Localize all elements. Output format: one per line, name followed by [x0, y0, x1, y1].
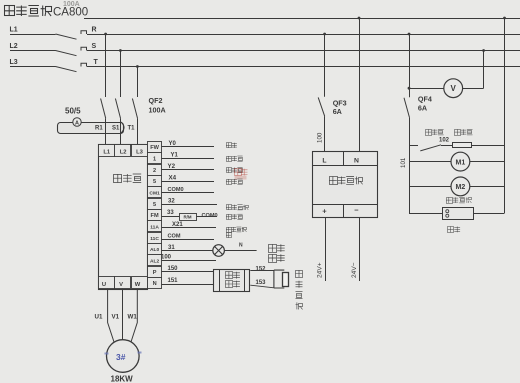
resistor R/M on FM line	[180, 214, 197, 221]
braking unit 制动单元 box	[214, 270, 250, 292]
svg-text:+: +	[322, 207, 327, 216]
svg-text:100A: 100A	[149, 106, 166, 115]
wire 31 from AL0	[162, 250, 213, 252]
junction R-QF4	[408, 33, 411, 36]
label 转速表	[226, 214, 232, 219]
svg-text:QF2: QF2	[149, 96, 163, 105]
svg-text:W1: W1	[128, 314, 138, 321]
wire rung1 mid	[441, 145, 453, 147]
svg-text:L1: L1	[10, 27, 18, 34]
wire Y1 from terminal 1	[162, 158, 215, 160]
switch QF1 pole L3	[56, 67, 77, 72]
label 多段速	[226, 156, 232, 162]
svg-text:L1: L1	[103, 150, 111, 156]
svg-text:Y1: Y1	[171, 153, 179, 159]
svg-text:6A: 6A	[418, 104, 427, 113]
label 照明灯	[455, 129, 461, 135]
wire rung3 right	[470, 186, 505, 188]
svg-text:N: N	[153, 281, 157, 287]
junction N-ladder	[503, 17, 506, 20]
junction T-QF2	[136, 65, 139, 68]
svg-text:V: V	[451, 84, 457, 93]
svg-text:24V+: 24V+	[317, 262, 324, 278]
label 制动电阻 (vertical)	[296, 270, 303, 278]
terminal U	[99, 277, 115, 289]
svg-text:N: N	[354, 158, 359, 165]
wire phase R rail	[87, 34, 520, 36]
wire ladder left rail 101	[409, 117, 411, 213]
terminal L2	[115, 145, 131, 157]
svg-text:U: U	[102, 282, 106, 288]
wire voltmeter left lead	[409, 88, 444, 90]
svg-text:P: P	[153, 270, 157, 276]
svg-text:COM0: COM0	[168, 187, 184, 193]
wire R to QF3	[324, 34, 326, 97]
label 多段速	[226, 179, 232, 185]
svg-text:150: 150	[168, 266, 179, 272]
svg-text:CA800: CA800	[53, 7, 88, 19]
svg-text:32: 32	[168, 199, 175, 205]
wire 24V-	[359, 217, 361, 281]
junction R-QF2	[104, 33, 107, 36]
svg-text:V: V	[119, 282, 123, 288]
terminal L1	[99, 145, 115, 157]
svg-text:18KW: 18KW	[111, 375, 134, 383]
svg-text:X4: X4	[169, 175, 177, 182]
wire N rail to PSU N	[359, 18, 361, 151]
wire phase L2 lead	[10, 50, 56, 52]
wire ladder right rail from N	[504, 18, 506, 213]
svg-text:R1: R1	[95, 126, 103, 132]
svg-text:N: N	[239, 243, 243, 249]
wire QF2 pole2 upper	[120, 51, 122, 98]
svg-text:R: R	[92, 27, 97, 34]
terminal AL0 (row 9)	[148, 244, 162, 255]
wire 100 QF3 to PSU L	[324, 116, 326, 151]
junction S-QF2	[119, 49, 122, 52]
label 门开关	[426, 129, 432, 135]
terminal N (row 12)	[148, 278, 162, 289]
lamp HL alarm	[213, 245, 225, 257]
junction S-voltmeter	[482, 49, 485, 52]
wire phase T rail	[87, 66, 520, 68]
switch 门开关 102	[420, 145, 441, 151]
wire 32 from terminal 5	[162, 204, 218, 206]
svg-text:3#: 3#	[116, 352, 126, 362]
wire QF2 pole1 upper	[105, 34, 107, 97]
svg-text:−: −	[354, 206, 359, 215]
terminal AL2 (row 10)	[148, 255, 162, 266]
svg-text:L: L	[322, 158, 326, 165]
terminal 5 (row 5)	[148, 199, 162, 210]
wire QF2 pole3 lower	[137, 118, 139, 144]
lamp 照明灯	[453, 143, 472, 148]
wire QF2 pole3 upper	[137, 67, 139, 98]
wire QF2 pole2 lower	[120, 118, 122, 144]
svg-text:V1: V1	[112, 314, 120, 321]
label 变频报警	[269, 244, 277, 252]
socket 插座 box	[443, 208, 474, 220]
watermark blue ticks motor	[105, 353, 109, 355]
svg-text:152: 152	[256, 266, 267, 272]
label 冷却风扇	[446, 197, 453, 203]
terminal 1 (row 1)	[148, 153, 162, 164]
svg-text:L2: L2	[10, 43, 18, 50]
svg-text:101: 101	[400, 157, 407, 168]
wire 33 from FM	[162, 216, 218, 218]
terminal 2 (row 2)	[148, 165, 162, 176]
svg-text:50/5: 50/5	[65, 107, 81, 116]
wire COM from 11C	[162, 239, 215, 241]
svg-text:5: 5	[153, 202, 156, 208]
wire COM0 from CM1	[162, 192, 215, 194]
breaker QF4	[404, 98, 409, 118]
label 运行	[226, 143, 232, 148]
label 插座	[448, 227, 454, 233]
svg-text:100: 100	[317, 132, 324, 143]
terminal P (row 11)	[148, 267, 162, 278]
motor M1	[451, 152, 470, 171]
terminal L3	[132, 145, 148, 157]
svg-text:U1: U1	[95, 314, 103, 321]
label 多段速	[226, 168, 232, 173]
switch QF1 pole L2	[56, 51, 77, 56]
svg-text:QF4: QF4	[418, 94, 432, 103]
svg-text:31: 31	[168, 245, 175, 251]
wire rung1 right	[472, 145, 505, 147]
svg-text:FM: FM	[151, 213, 159, 219]
wire R to QF4	[409, 34, 411, 97]
svg-text:Y0: Y0	[169, 141, 177, 147]
wire lamp to N	[224, 250, 256, 252]
ammeter A	[73, 118, 81, 126]
svg-text:COM0: COM0	[202, 213, 218, 219]
svg-text:L3: L3	[136, 150, 144, 156]
breaker QF3	[318, 97, 325, 116]
terminal FM (row 6)	[148, 210, 162, 221]
junction N-PSU	[358, 17, 361, 20]
svg-text:W: W	[135, 282, 141, 288]
svg-text:100: 100	[161, 254, 172, 260]
wire X21 from 11A	[162, 227, 217, 229]
wire rung4 left	[409, 213, 443, 215]
svg-text:S: S	[92, 43, 97, 50]
current transformer bar 50/5	[58, 123, 124, 134]
svg-text:FW: FW	[150, 145, 159, 151]
wire QF2 pole1 lower	[105, 118, 107, 144]
svg-text:M1: M1	[456, 159, 466, 166]
terminal CM1 (row 4)	[148, 187, 162, 198]
svg-text:151: 151	[168, 278, 179, 284]
svg-text:24V−: 24V−	[351, 262, 358, 278]
wire rung2 left	[409, 161, 451, 163]
wire phase L3 lead	[10, 66, 56, 68]
wire voltmeter to S rail	[483, 51, 485, 89]
wire phase L1 lead	[10, 34, 56, 36]
red watermark 多段速	[235, 169, 242, 176]
svg-text:102: 102	[439, 137, 450, 143]
wire Y2 from terminal 2	[162, 169, 215, 171]
wire X4 from terminal 5	[162, 181, 215, 183]
wire rung4 right	[473, 213, 504, 215]
wire 153 output	[250, 285, 274, 288]
svg-text:2: 2	[153, 168, 156, 174]
voltmeter V	[444, 79, 463, 98]
svg-text:CM1: CM1	[149, 190, 160, 196]
svg-text:S1: S1	[112, 126, 120, 132]
svg-text:11C: 11C	[150, 236, 159, 242]
svg-text:6A: 6A	[333, 107, 342, 116]
svg-text:AL0: AL0	[150, 247, 160, 253]
terminal V	[115, 277, 131, 289]
label 制动单元	[226, 272, 233, 279]
wire V phase to motor	[122, 289, 124, 341]
wire 150 from P	[162, 271, 214, 273]
wire rung2 right	[470, 161, 505, 163]
svg-text:153: 153	[256, 280, 267, 286]
wire 151 from N	[162, 284, 214, 286]
terminal 11C (row 8)	[148, 233, 162, 244]
switch QF1 pole L1	[56, 34, 77, 39]
motor M 18KW	[107, 340, 140, 373]
breaker QF2 blade1	[101, 99, 106, 119]
svg-text:AL2: AL2	[150, 258, 160, 264]
svg-text:A: A	[75, 120, 79, 126]
svg-text:T1: T1	[128, 126, 136, 132]
svg-text:100A: 100A	[63, 1, 80, 8]
terminal W	[132, 277, 148, 289]
wire U phase to motor	[108, 289, 115, 344]
wire voltmeter right lead	[463, 88, 484, 90]
label 频率到信号	[226, 227, 232, 233]
svg-text:COM: COM	[168, 234, 181, 240]
svg-text:33: 33	[167, 210, 174, 216]
label 变频器	[114, 174, 123, 183]
svg-text:L3: L3	[10, 59, 18, 66]
watermark header 版权所有CA800	[4, 6, 15, 17]
label 故障复位	[226, 205, 232, 210]
label 开关电源	[329, 177, 338, 185]
terminal 5 (row 3)	[148, 176, 162, 187]
wire rung1 left	[409, 145, 418, 147]
svg-text:X21: X21	[172, 222, 183, 228]
breaker QF2 blade3	[132, 99, 137, 119]
wire 100 from AL2	[162, 260, 217, 262]
svg-text:5: 5	[153, 179, 156, 185]
svg-text:M2: M2	[456, 184, 466, 191]
wire 152 output	[250, 270, 274, 272]
switching power supply 开关电源 box	[313, 152, 378, 218]
wire rung3 left	[409, 186, 451, 188]
wire Y0 from FW	[162, 146, 215, 148]
wire neutral N rail	[84, 18, 520, 20]
svg-text:1: 1	[153, 156, 156, 162]
wire 24V+	[325, 217, 327, 281]
svg-text:Y2: Y2	[168, 163, 176, 170]
breaker QF2 blade2	[115, 99, 120, 119]
junction R-QF3	[323, 33, 326, 36]
terminal FW (row 0)	[148, 142, 162, 153]
terminal 11A (row 7)	[148, 221, 162, 232]
svg-text:T: T	[94, 59, 99, 66]
wire phase S rail	[87, 50, 520, 52]
svg-text:L2: L2	[120, 150, 127, 156]
wire W phase to motor	[131, 289, 138, 344]
motor M2	[451, 177, 470, 196]
braking resistor 制动电阻	[274, 270, 284, 288]
junction QF4-voltmeter	[408, 87, 411, 90]
svg-text:R/M: R/M	[183, 215, 191, 220]
svg-text:11A: 11A	[150, 224, 159, 230]
inverter U1 变频器 main box	[99, 145, 148, 290]
